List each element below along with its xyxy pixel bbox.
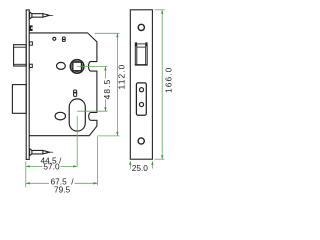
arrow (112.0 top) xyxy=(116,33,118,37)
extension line (plate bottom) xyxy=(155,158,165,160)
extension line (cylinder centre leader) xyxy=(77,110,107,112)
extension line (case rear) xyxy=(96,137,98,186)
svg-text:166.0: 166.0 xyxy=(163,67,173,94)
cylinder cutout (front view rounded slot) xyxy=(136,83,146,115)
halo (67.5/79.5 text background) xyxy=(49,177,75,193)
hole H4 (bottom screw hole, front view) xyxy=(138,138,144,144)
extension line (case bottom) xyxy=(97,135,119,137)
tab T1 (top faceplate lug) xyxy=(29,25,32,31)
tick (25.0 left) xyxy=(129,162,131,169)
hole H2 (oval left of cylinder) xyxy=(55,112,65,120)
extension line (case top) xyxy=(95,32,120,34)
deadbolt (side view, thrown) xyxy=(12,85,26,114)
svg-text:48.5: 48.5 xyxy=(102,79,112,100)
faceplate (side view) xyxy=(26,10,30,160)
arrow (follower leader, points left) xyxy=(80,65,84,67)
latch cutout (front view with latch bolt) xyxy=(135,42,148,65)
hole H1 (handle hub slot, oval left of follower) xyxy=(57,62,66,69)
arrow (25.0 left up) xyxy=(129,161,131,165)
rivet R1 (small case screw head) xyxy=(53,37,56,40)
arrow (166.0 top) xyxy=(161,10,163,14)
arrow (44.5/57.0 right) xyxy=(73,165,77,167)
arrow (67.5/79.5 right) xyxy=(93,182,97,184)
extension line (plate top) xyxy=(155,9,165,11)
dimension line 166.0 xyxy=(161,10,163,159)
arrow (112.0 bottom) xyxy=(116,132,118,136)
arrow (166.0 bottom) xyxy=(161,155,163,159)
arrow (48.5 bottom) xyxy=(104,107,106,111)
hole H3 (top screw hole, front view) xyxy=(138,24,144,30)
extension line (cylinder centre, bottom) xyxy=(76,116,78,166)
latch bolt (side view, protruding) xyxy=(14,45,27,66)
arrow (67.5/79.5 left) xyxy=(26,182,30,184)
svg-text:57.0: 57.0 xyxy=(43,161,60,171)
follower F1 (spindle follower ring) xyxy=(70,60,84,74)
halo (44.5/57.0 text background) xyxy=(43,163,61,171)
arrow (25.0 right up) xyxy=(151,161,153,165)
dimension line 67.5/79.5 xyxy=(26,182,98,184)
svg-text:79.5: 79.5 xyxy=(54,184,71,194)
screw S1 (top fixing screw) xyxy=(30,12,54,19)
lock case (side view outline with follower and cylinder notches) xyxy=(29,33,97,136)
extension line (backset at faceplate) xyxy=(25,161,27,187)
arrow (48.5 top) xyxy=(104,66,106,70)
arrow (44.5/57.0 left) xyxy=(26,165,30,167)
extension line (follower centre leader) xyxy=(77,65,107,67)
halo (48.5 text background) xyxy=(103,79,113,100)
tab T3 (latch bottom guide) xyxy=(29,64,32,67)
screw S2 (bottom fixing screw) xyxy=(30,149,54,156)
dimension line 112.0 xyxy=(116,33,118,136)
svg-text:25.0: 25.0 xyxy=(132,163,149,173)
tick (25.0 right) xyxy=(151,162,153,169)
dimension line 48.5 xyxy=(104,66,106,111)
rivet R2 (small case bolt, upper) xyxy=(62,37,65,41)
tab T2 (latch top guide) xyxy=(29,42,32,45)
svg-text:112.0: 112.0 xyxy=(116,64,126,90)
dimension line 44.5/57.0 xyxy=(26,165,77,167)
rivet R3 (small bolt above cylinder) xyxy=(73,90,77,96)
cylinder hole C1 (euro profile oval) xyxy=(69,99,85,131)
strike faceplate (front view) xyxy=(130,10,152,159)
